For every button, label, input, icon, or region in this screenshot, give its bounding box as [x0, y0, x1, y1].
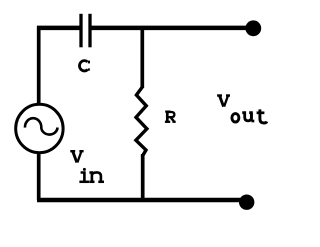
- wire top-left segment (left rail corner to capacitor left plate): [37, 26, 80, 31]
- wire left rail upper (top wire down to source top): [37, 26, 41, 104]
- wire resistor bottom lead: [141, 154, 145, 200]
- AC source Vin circle: [16, 104, 63, 152]
- wire bottom: [37, 198, 243, 202]
- wire top-right segment (capacitor right plate to output terminal): [92, 26, 252, 31]
- capacitor C left plate: [79, 14, 82, 48]
- AC source sine wave: [25, 118, 58, 134]
- node terminal top-right: [245, 20, 261, 36]
- wire resistor top lead: [140, 27, 144, 89]
- resistor R zigzag: [136, 87, 147, 156]
- label C: [80, 61, 89, 71]
- label V in: [70, 151, 83, 162]
- capacitor C right plate: [88, 14, 91, 48]
- label V out: [217, 96, 230, 107]
- label R: [165, 112, 176, 122]
- wire left rail lower (source bottom to bottom wire): [37, 153, 41, 200]
- node terminal bottom-right: [239, 195, 254, 210]
